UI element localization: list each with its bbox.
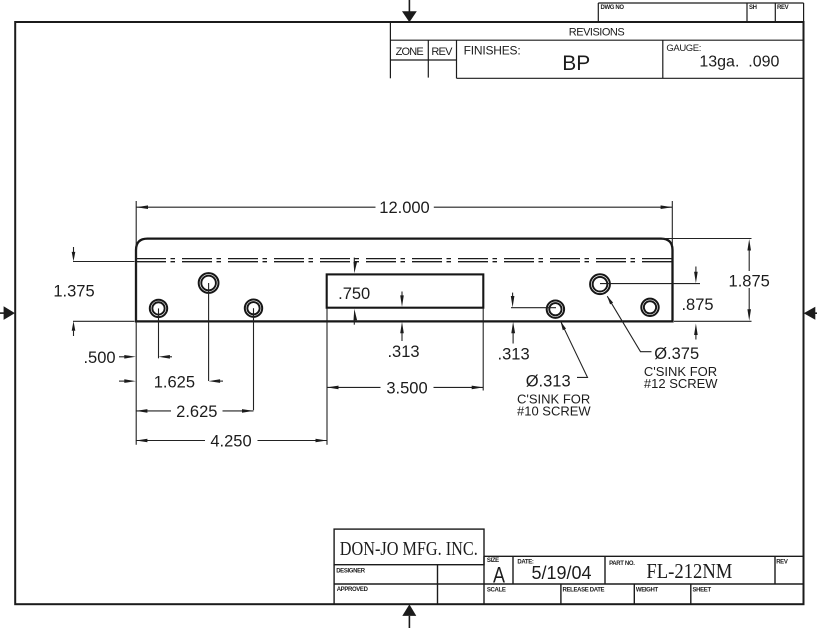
extension line plate top right	[662, 238, 752, 240]
leader hole B	[208, 283, 210, 381]
svg-text:Ø.375: Ø.375	[654, 345, 699, 363]
svg-text:1.625: 1.625	[154, 373, 195, 391]
dimension .875	[681, 267, 713, 340]
dimension 12.000	[136, 199, 672, 217]
svg-text:FL-212NM: FL-212NM	[646, 559, 732, 583]
plate outline	[136, 239, 673, 322]
dimension .750	[338, 258, 370, 325]
hole F right csink #10	[641, 299, 658, 316]
svg-text:.500: .500	[83, 349, 115, 367]
right center margin arrow	[804, 307, 817, 320]
svg-text:1.375: 1.375	[53, 283, 94, 301]
dimension 2.625	[136, 403, 254, 421]
svg-text:.313: .313	[387, 343, 419, 361]
svg-text:12.000: 12.000	[379, 199, 429, 217]
leader hole C	[253, 308, 255, 410]
svg-text:2.625: 2.625	[176, 403, 217, 421]
svg-text:DESIGNER: DESIGNER	[336, 569, 366, 575]
svg-text:PART NO.: PART NO.	[609, 561, 635, 567]
dimension .313 right	[498, 293, 530, 364]
extension line cutout left	[326, 308, 328, 445]
svg-text:REV: REV	[777, 5, 789, 11]
title block frame	[334, 529, 803, 604]
hole A left csink #10	[150, 300, 167, 317]
svg-text:FINISHES:: FINISHES:	[464, 44, 521, 58]
svg-text:5/19/04: 5/19/04	[531, 563, 591, 583]
extension line cutout bottom right	[511, 307, 556, 309]
leader and note csink #12	[607, 296, 718, 391]
svg-text:4.250: 4.250	[210, 433, 251, 451]
bend phantom line upper	[136, 258, 673, 260]
hole B left csink #12	[199, 273, 219, 293]
dimension 3.500	[327, 380, 483, 398]
bend phantom line lower	[136, 261, 673, 263]
hole C left inner csink #10	[245, 300, 262, 317]
extension line cutout right	[482, 308, 484, 391]
svg-text:1.875: 1.875	[729, 273, 770, 291]
svg-text:.875: .875	[681, 296, 713, 314]
svg-text:SHEET: SHEET	[693, 587, 712, 593]
dimension 1.375	[53, 247, 94, 336]
dimension 1.875	[729, 239, 770, 321]
extension line centerline left	[73, 261, 135, 263]
leader and note csink #10	[517, 321, 591, 418]
revisions table frame	[390, 22, 803, 78]
svg-text:#12 SCREW: #12 SCREW	[644, 376, 718, 391]
svg-text:13ga. .090: 13ga. .090	[699, 54, 779, 71]
top center margin arrow	[402, 0, 417, 22]
extension line plate bottom right	[674, 320, 752, 322]
svg-text:#10 SCREW: #10 SCREW	[517, 403, 591, 418]
bottom center margin arrow	[402, 604, 416, 628]
dimension .313 center	[387, 292, 419, 361]
rectangular cutout	[327, 274, 484, 307]
extension line plate bottom left	[73, 320, 135, 322]
svg-text:REV: REV	[431, 46, 453, 58]
dimension 1.625	[119, 373, 223, 391]
extension line right for 12.000	[671, 201, 673, 246]
svg-text:BP: BP	[562, 52, 590, 75]
dimension 4.250	[136, 433, 327, 451]
svg-text:SCALE: SCALE	[487, 587, 506, 593]
dwg-no strip top right	[598, 3, 803, 22]
extension line left long	[135, 201, 137, 445]
svg-text:REVISIONS: REVISIONS	[569, 27, 625, 39]
svg-text:Ø.313: Ø.313	[526, 372, 571, 390]
svg-text:GAUGE:: GAUGE:	[666, 43, 701, 54]
svg-text:RELEASE DATE: RELEASE DATE	[563, 587, 605, 593]
svg-text:REV: REV	[776, 560, 788, 566]
svg-text:ZONE: ZONE	[396, 46, 424, 58]
hole E right csink #12	[590, 274, 610, 294]
left center margin arrow	[0, 306, 15, 320]
svg-text:SH: SH	[749, 5, 757, 11]
svg-text:.750: .750	[338, 285, 370, 303]
svg-text:WEIGHT: WEIGHT	[636, 587, 659, 593]
reference line hole E center	[600, 283, 700, 285]
svg-text:DON-JO MFG. INC.: DON-JO MFG. INC.	[340, 538, 478, 560]
svg-text:.313: .313	[498, 346, 530, 364]
leader hole A	[158, 308, 160, 358]
svg-text:DWG NO: DWG NO	[601, 5, 625, 11]
dimension .500	[83, 349, 172, 367]
svg-text:APPROVED: APPROVED	[337, 587, 369, 593]
svg-text:3.500: 3.500	[386, 380, 427, 398]
svg-text:A: A	[493, 562, 505, 587]
hole D right inner csink #10	[547, 301, 564, 318]
